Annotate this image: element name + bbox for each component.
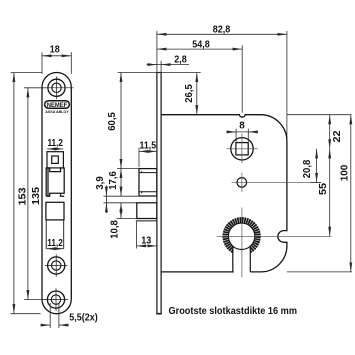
- ext line case top right: [287, 114, 352, 116]
- ext line faceplate back up: [160, 61, 162, 73]
- dim 3.9 arrows: [105, 189, 107, 197]
- centerline vertical cylinder: [241, 208, 243, 278]
- dim 135 line: [27, 88, 29, 300]
- ext line latch top: [117, 168, 139, 170]
- dim 60.5 line: [120, 73, 122, 169]
- svg-text:60,5: 60,5: [107, 112, 118, 131]
- ext line case bottom right: [287, 271, 352, 273]
- dim 2.8 arrows: [149, 64, 157, 66]
- dim 26.5 line: [196, 73, 198, 115]
- NEMEF logo badge: [45, 101, 70, 109]
- dim 8 line: [228, 131, 256, 133]
- lock case outline: [161, 115, 287, 272]
- projection line bottom y313.7: [11, 313, 41, 315]
- dim 11.2 upper line: [47, 148, 63, 150]
- svg-text:22: 22: [332, 130, 343, 142]
- svg-text:82,8: 82,8: [213, 25, 231, 36]
- cylinder slot lines: [232, 246, 234, 272]
- centerline horizontal cylinder: [217, 235, 332, 237]
- ext line latch tip: [138, 148, 140, 168]
- ext line 82.8 right: [286, 31, 288, 141]
- dim 18 line: [42, 55, 71, 57]
- svg-text:17,6: 17,6: [108, 171, 119, 190]
- svg-text:11,2: 11,2: [47, 138, 63, 149]
- deadbolt front view: [46, 202, 64, 220]
- dim 82.8 line: [157, 33, 287, 35]
- projection line faceplate top to case: [118, 72, 201, 74]
- faceplate side view bottom cap: [156, 313, 161, 315]
- svg-text:55: 55: [318, 183, 329, 195]
- svg-text:13: 13: [141, 235, 151, 246]
- dim 8 extension ticks: [235, 129, 237, 142]
- small fixing hole: [237, 178, 247, 188]
- dim 17.6 line: [120, 169, 122, 197]
- dim 8 arrows: [229, 131, 236, 133]
- dim 2.8 line: [147, 64, 190, 66]
- ext line deadbolt tip: [136, 222, 138, 249]
- svg-text:10,8: 10,8: [110, 220, 121, 239]
- screw hole bottom: [45, 288, 68, 311]
- dim 20.8 line: [316, 149, 318, 183]
- projection line screw bottom: [24, 299, 46, 301]
- cylinder hole circle: [228, 223, 254, 249]
- svg-text:11,2: 11,2: [47, 238, 63, 249]
- svg-text:5,5(2x): 5,5(2x): [69, 312, 98, 323]
- spindle square hole: [236, 143, 248, 155]
- latch cutout front: [47, 152, 63, 168]
- svg-text:153: 153: [17, 187, 28, 205]
- svg-text:Grootste slotkastdikte 16 mm: Grootste slotkastdikte 16 mm: [169, 306, 298, 317]
- ext line 54.8 right: [241, 45, 243, 112]
- dim 11.2 lower line: [46, 248, 64, 250]
- cylinder slot whiteout: [233, 244, 249, 272]
- svg-text:135: 135: [31, 187, 42, 205]
- ext line latch bottom: [104, 195, 140, 197]
- faceplate side view back edge: [160, 73, 162, 314]
- ext line small hole right short: [311, 181, 322, 183]
- screw hole middle: [45, 254, 68, 277]
- dim 18 extension lines: [41, 52, 43, 74]
- dim 5.5(2x) extension lines: [49, 303, 51, 328]
- dim 22 line: [329, 115, 331, 149]
- spindle follower circle: [231, 138, 253, 160]
- svg-text:26,5: 26,5: [184, 84, 195, 103]
- faceplate side view top cap: [156, 72, 161, 74]
- ext line faceplate front up: [156, 31, 158, 73]
- centerline vertical spindle: [241, 134, 243, 164]
- centerline vertical small hole: [241, 173, 243, 192]
- dim 100 line: [350, 115, 352, 272]
- latch bolt side view: [139, 169, 157, 196]
- centerline horizontal spindle: [227, 148, 259, 150]
- svg-text:20,8: 20,8: [302, 159, 313, 178]
- dim 54.8 line: [157, 48, 242, 50]
- dim 10.8 line: [120, 203, 122, 219]
- dim 13 line: [137, 245, 157, 247]
- svg-text:11,5: 11,5: [140, 141, 157, 152]
- ext line deadbolt bottom: [117, 218, 137, 220]
- svg-text:3,9: 3,9: [95, 176, 106, 190]
- svg-text:18: 18: [50, 45, 60, 56]
- centerline horizontal small hole: [232, 181, 322, 183]
- dim 3.9 line: [105, 186, 107, 214]
- cylinder hole reinforcing ring (hatched): [225, 220, 257, 252]
- dim 5.5(2x) line: [42, 324, 51, 326]
- dim 11.5 line: [139, 150, 157, 152]
- svg-text:NEMEF: NEMEF: [47, 102, 68, 109]
- svg-text:54,8: 54,8: [192, 39, 210, 50]
- projection line top y72.5: [11, 72, 43, 74]
- screw hole top: [45, 77, 73, 100]
- deadbolt slot front: [45, 220, 47, 249]
- deadbolt side view: [137, 203, 157, 219]
- faceplate side view front edge: [156, 73, 158, 314]
- projection line screw top: [24, 87, 46, 89]
- svg-text:2,8: 2,8: [174, 54, 187, 65]
- dim 153 line: [13, 73, 15, 314]
- svg-text:8: 8: [239, 120, 245, 131]
- svg-text:100: 100: [339, 164, 350, 181]
- latch bolt front view: [46, 168, 64, 196]
- svg-text:ASSA ABLOY: ASSA ABLOY: [45, 110, 69, 114]
- ext line deadbolt top: [104, 202, 137, 204]
- dim 55 line: [329, 149, 331, 237]
- faceplate front view outline: [42, 73, 71, 314]
